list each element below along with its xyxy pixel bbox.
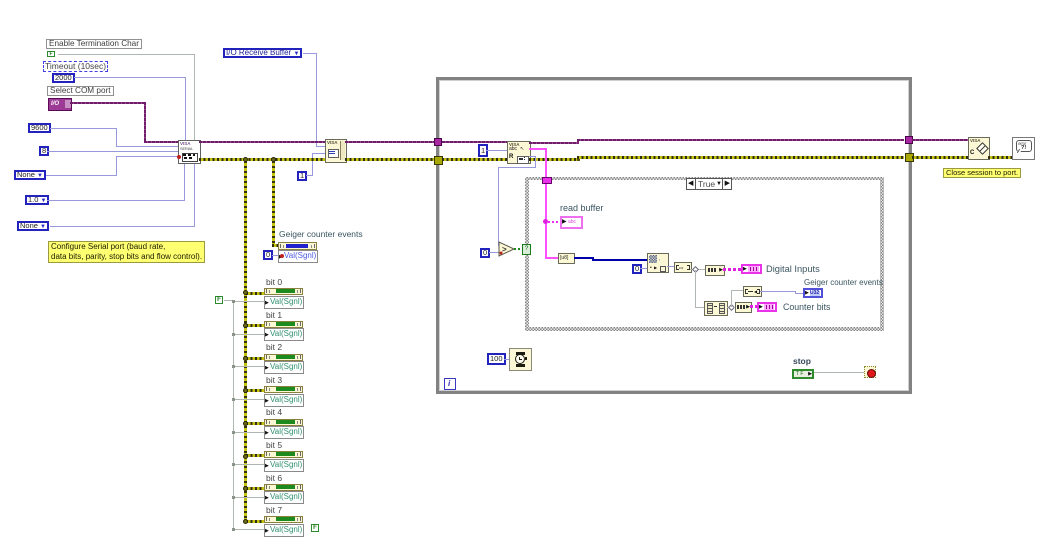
property node Val(Sgnl) bit 4: [264, 426, 304, 439]
enum constant None (flow control): [17, 221, 49, 231]
wire byte count blue: [529, 156, 536, 157]
wire 8 to VISA serial: [47, 151, 178, 152]
wire F to bits vertical: [224, 300, 234, 301]
tunnel purple left: [434, 138, 442, 146]
wire up to boolarray2num: [731, 290, 732, 307]
terminal stop TF: [792, 369, 814, 379]
terminal bit 4: [264, 419, 303, 426]
wire 1.0 to VISA serial bottom: [47, 200, 185, 201]
wire F branch bit 5: [234, 464, 264, 465]
label bit 3: [266, 376, 282, 385]
property node Val(Sgnl) bit 2: [264, 361, 304, 374]
numeric constant 0 (geiger): [263, 250, 273, 260]
wire error set buffer to loop: [345, 158, 435, 161]
wire F to VISA serial top: [58, 54, 195, 55]
property node Val(Sgnl) bit 7: [264, 524, 304, 537]
property node Val(Sgnl) bit 3: [264, 394, 304, 407]
terminal bit 0: [264, 288, 303, 295]
wire purple set buffer to loop: [345, 141, 435, 143]
op Greater Than comparator: [498, 241, 516, 257]
wire 100 to wait: [504, 359, 510, 360]
wire None2 to VISA serial bottom: [50, 226, 195, 227]
numeric constant 0 (compare): [480, 248, 490, 258]
junction error to bits chain: [243, 157, 248, 162]
junction error to geiger chain: [271, 157, 276, 162]
terminal Geiger counter events: [278, 242, 317, 250]
wire error branch bit 5: [246, 454, 264, 457]
comment Close session to port: [943, 168, 1021, 178]
iteration terminal i: [444, 378, 456, 390]
wire F branch bit 3: [234, 399, 264, 400]
loop condition terminal (red stop): [864, 366, 876, 378]
wire F branch bit 6: [234, 497, 264, 498]
op Boolean Array to Number: [743, 286, 762, 297]
wire error VISA close to error out: [988, 156, 1013, 159]
indicator U32: [803, 288, 823, 298]
wire F branch bit 7: [234, 529, 264, 530]
label bit 7: [266, 506, 282, 515]
property node Val(Sgnl) bit 1: [264, 328, 304, 341]
enum constant None (parity): [14, 170, 46, 180]
wire diamond2 to array subset 2: [733, 307, 736, 308]
op Array Subset 1: [705, 265, 725, 276]
property node Val(Sgnl) bit 6: [264, 491, 304, 504]
wire purple loop to VISA close: [912, 139, 969, 141]
wire error VISA read to right tunnel: [529, 158, 578, 161]
op VISA Configure Serial Port U1: [178, 140, 201, 164]
terminal bit 2: [264, 354, 303, 361]
wire pink dash to read buffer: [548, 221, 560, 223]
wire reverse out: [727, 307, 735, 308]
comment Configure Serial port: [48, 241, 205, 263]
wire byte array dark blue: [574, 257, 594, 259]
wire 9600 to VISA serial: [50, 128, 117, 129]
op Reverse 1D Array: [704, 301, 728, 316]
numeric constant 8: [39, 146, 49, 156]
terminal bit 3: [264, 386, 303, 393]
wire pink dashed to Digital Inputs: [723, 268, 741, 271]
label Geiger counter events: [279, 230, 363, 239]
junction diamond: [692, 266, 699, 273]
wire unflatten to num2boolarray: [667, 266, 675, 267]
label bit 4: [266, 408, 282, 417]
wire stop to loop condition: [814, 372, 865, 373]
wire pink dashed to Counter bits: [750, 305, 758, 308]
wire 0 to comparator: [489, 252, 500, 253]
wire F branch bit 2: [234, 366, 264, 367]
wire purple VISA serial to set buffer: [199, 141, 325, 143]
wire purple inside loop to VISA Read: [442, 141, 508, 143]
terminal bit 1: [264, 321, 303, 328]
wire error branch bit 7: [246, 520, 264, 523]
label Timeout (10sec) selected: [43, 61, 108, 72]
while loop border: [436, 77, 912, 394]
numeric constant 1 (read count): [478, 144, 488, 157]
numeric constant 100 (wait): [487, 353, 506, 365]
junction diamond 2: [728, 304, 735, 311]
indicator Counter bits: [757, 302, 777, 312]
wire VISA resource to VISA serial (purple): [70, 102, 146, 104]
boolean constant F (enable termination): [47, 51, 55, 57]
wire 1 to VISA read: [486, 150, 508, 151]
wire error vertical to bits: [244, 161, 247, 520]
wire F branch bit 4: [234, 432, 264, 433]
op Array Subset 2: [735, 302, 752, 313]
terminal bit 7: [264, 516, 303, 523]
wire error loop to VISA close: [912, 156, 969, 159]
wire boolarray out: [690, 269, 705, 270]
wire 0 to geiger val: [272, 255, 278, 256]
property node Val(Sgnl) bit 5: [264, 459, 304, 472]
wire pink read buffer string: [529, 148, 546, 150]
numeric constant 0 (index): [632, 264, 642, 274]
terminal bit 6: [264, 484, 303, 491]
label Select COM port: [47, 86, 114, 96]
property node Val(Sgnl) bit 0: [264, 296, 304, 309]
boolean constant F (after bit7): [311, 524, 319, 532]
op VISA Read U3: [507, 141, 531, 164]
wire F branch bit 0: [234, 301, 264, 302]
op Unflatten/Index Array: [647, 253, 669, 273]
label bit 2: [266, 343, 282, 352]
wire error branch bit 6: [246, 487, 264, 490]
wire boolarray down branch: [695, 270, 696, 308]
enum constant 1.0 (stop bits): [25, 195, 49, 205]
label bit 6: [266, 474, 282, 483]
op Number to Boolean Array: [674, 262, 692, 273]
wire error vertical to geiger: [272, 161, 275, 246]
label Geiger counter events 2: [804, 278, 883, 287]
property node Val(Sgnl) geiger: [278, 250, 318, 263]
numeric constant 9600: [28, 123, 51, 133]
wire error inside loop to VISA Read: [442, 158, 508, 161]
case structure border: [525, 177, 884, 331]
wire error branch bit 4: [246, 422, 264, 425]
wire error branch bit 2: [246, 357, 264, 360]
tunnel pink case top: [542, 177, 552, 184]
svg-text:>: >: [502, 245, 507, 254]
wire error branch bit 0: [246, 292, 264, 295]
terminal bit 5: [264, 451, 303, 458]
wire F branch bit 1: [234, 334, 264, 335]
indicator Digital Inputs: [741, 264, 762, 274]
label read buffer: [560, 204, 603, 213]
tunnel purple right: [905, 136, 913, 144]
label Digital Inputs: [766, 265, 820, 274]
VISA resource constant I/O: [48, 98, 72, 111]
wire error branch bit 1: [246, 324, 264, 327]
wire green selector: [514, 248, 524, 250]
op String to Byte Array: [558, 253, 575, 264]
enum constant I/O Receive Buffer: [223, 48, 302, 58]
label Enable Termination Char: [46, 39, 142, 49]
label stop: [793, 357, 811, 366]
label bit 0: [266, 278, 282, 287]
junction pink: [543, 219, 548, 224]
wire 2000 to VISA serial top: [74, 77, 186, 78]
case selector label True: [686, 178, 732, 190]
wire 0 to unflatten: [640, 268, 647, 269]
label bit 5: [266, 441, 282, 450]
label bit 1: [266, 311, 282, 320]
numeric constant 2000: [52, 73, 75, 83]
wire 1 to VISA set buffer: [306, 175, 313, 176]
wire error branch bit 3: [246, 389, 264, 392]
op error out (simple error handler): [1012, 137, 1035, 160]
numeric constant 1 (mask): [297, 171, 307, 181]
tunnel case selector: [522, 244, 531, 255]
op Wait ms clock: [509, 348, 532, 371]
tunnel error left: [434, 156, 443, 165]
wire purple VISA read to right tunnel: [529, 142, 578, 144]
op VISA Set I/O Buffer Size U2: [325, 139, 347, 163]
wire IO receive buffer to VISA set buffer: [303, 53, 317, 54]
wire None to VISA serial: [46, 175, 117, 176]
tunnel error right: [905, 153, 914, 162]
wire error VISA serial to set buffer: [199, 158, 325, 161]
wire blue to U32: [760, 291, 796, 292]
BITS-F boolean constant F feeding bits: [215, 296, 223, 304]
label Counter bits: [783, 303, 830, 312]
op VISA Close U4: [968, 137, 990, 160]
indicator read buffer (string): [560, 216, 583, 229]
